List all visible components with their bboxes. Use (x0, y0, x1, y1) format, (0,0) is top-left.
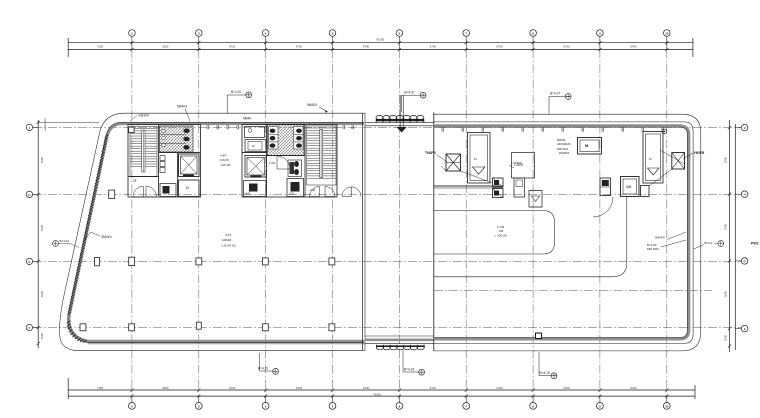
core2 lower room center (287, 179, 304, 197)
right dimension ticks (728, 126, 731, 347)
svg-text:▽16.05: ▽16.05 (219, 158, 229, 162)
svg-text:5M4K: 5M4K (243, 117, 252, 121)
left dimension ticks (37, 121, 40, 345)
svg-text:5M4K4: 5M4K4 (177, 105, 187, 109)
right edge leader B405 (655, 232, 686, 240)
svg-text:4: 4 (265, 405, 267, 409)
label waterproofing arrow top (307, 103, 328, 113)
svg-text:8: 8 (532, 32, 534, 36)
svg-text:MM·5M4: MM·5M4 (647, 247, 659, 251)
label EMFK top corner (130, 114, 150, 122)
left block bottom inner line (88, 343, 365, 345)
svg-text:M: M (649, 157, 652, 161)
horizontal grid axis lines (33, 127, 741, 327)
svg-text:←1M: ←1M (308, 188, 316, 192)
bottom dimension numbers (97, 386, 637, 390)
svg-text:1M1: 1M1 (289, 192, 295, 196)
right dimension numbers (724, 156, 728, 341)
svg-text:B=4.42: B=4.42 (60, 239, 70, 243)
svg-text:EM1FK: EM1FK (139, 114, 151, 118)
right grid bubbles column (735, 124, 748, 332)
svg-text:6700: 6700 (40, 224, 44, 231)
svg-text:6: 6 (399, 32, 401, 36)
small shaft D3 (641, 186, 650, 197)
svg-text:B=4.19: B=4.19 (258, 366, 268, 370)
ramp R1 (529, 191, 542, 208)
svg-text:◇16.05 (A): ◇16.05 (A) (221, 244, 236, 248)
lobby door arc core2 (269, 156, 290, 169)
leader B410 top left (227, 90, 251, 113)
duct shafts core1 (160, 156, 165, 173)
svg-text:M: M (585, 143, 589, 148)
svg-text:TM3FB: TM3FB (425, 151, 436, 155)
svg-text:◇ 100 (A): ◇ 100 (A) (494, 234, 507, 238)
svg-text:5: 5 (332, 32, 334, 36)
label 5M4K core2 top (243, 117, 252, 121)
bottom dimension end extension lines (68, 378, 695, 399)
svg-text:L.M/100: L.M/100 (511, 161, 522, 165)
svg-text:5M4K4: 5M4K4 (102, 235, 112, 239)
svg-text:1500: 1500 (724, 334, 728, 341)
bottom leader B419 right (539, 352, 557, 379)
svg-text:M: M (252, 144, 255, 148)
shaft tower V2 (643, 132, 663, 184)
equipment pad M1 (512, 153, 535, 179)
core2 lower room left (244, 181, 267, 197)
svg-text:7150: 7150 (97, 386, 104, 390)
top dimension line upper (68, 42, 693, 44)
top grid bubbles row (129, 30, 671, 50)
left block wall band (69, 124, 364, 342)
svg-text:1M/2M: 1M/2M (222, 238, 232, 242)
svg-text:6700: 6700 (40, 156, 44, 163)
svg-text:1M·2M: 1M·2M (221, 163, 231, 167)
svg-text:G: G (28, 260, 30, 264)
svg-text:6700: 6700 (296, 386, 303, 390)
duct shafts D1 (493, 178, 504, 198)
svg-text:1500: 1500 (40, 332, 44, 339)
door swings corridor right of core2 (342, 187, 361, 197)
leader label LM150 (509, 161, 522, 168)
svg-text:6700: 6700 (724, 156, 728, 163)
svg-text:B=4.19: B=4.19 (540, 371, 550, 375)
label TM3FB right (683, 151, 705, 159)
svg-text:6: 6 (399, 405, 401, 409)
door swings core1 (133, 179, 157, 197)
svg-text:8: 8 (532, 405, 534, 409)
svg-text:76200: 76200 (373, 392, 381, 396)
equipment text block right (557, 138, 571, 155)
svg-text:4: 4 (265, 32, 267, 36)
bottom leader B419 left (258, 353, 279, 374)
vertical grid axis lines (132, 50, 667, 397)
left block right end wall (363, 113, 366, 350)
right block inner parapet contour (434, 122, 693, 344)
svg-text:6700: 6700 (563, 386, 570, 390)
wall square marker bottom (536, 333, 542, 339)
right dimension extension line (734, 124, 736, 350)
svg-text:2: 2 (131, 405, 133, 409)
leader B4 top right block (549, 92, 571, 114)
leader lines skylight SK2 (649, 150, 685, 186)
machine room core2 (245, 127, 267, 152)
right block outer parapet contour (434, 114, 701, 351)
svg-text:6700: 6700 (363, 45, 370, 49)
door swing right block (593, 197, 613, 217)
svg-text:G: G (744, 259, 746, 263)
leader B442 left (53, 239, 79, 248)
top overall dimension 76200 (376, 38, 385, 42)
left block slanted edge hatching (67, 135, 109, 343)
roof drain circle top right (662, 129, 667, 134)
shaft tower V1 (468, 133, 491, 184)
right edge leader B42 outside (694, 241, 724, 249)
rain pipe top (397, 95, 407, 133)
svg-text:H: H (28, 193, 30, 197)
svg-text:YM3FB: YM3FB (694, 151, 706, 155)
svg-text:6600: 6600 (724, 290, 728, 297)
svg-text:B=4.37: B=4.37 (405, 90, 415, 94)
PW drawing note right edge (751, 242, 759, 246)
fixture cluster core2 (288, 160, 302, 177)
svg-text:H: H (744, 193, 746, 197)
svg-text:10: 10 (665, 405, 669, 409)
core lower wall right block (434, 186, 503, 188)
stair S1 (130, 127, 157, 177)
bottom dimension line upper (68, 389, 695, 391)
rooftop louver bottom (376, 345, 424, 350)
svg-text:2F: 2F (133, 179, 137, 183)
roof level change line L-path (434, 196, 627, 277)
left block wall band dark edge (68, 122, 364, 342)
left dimension numbers (40, 156, 44, 339)
elevator E2 (245, 156, 267, 178)
svg-text:PW1: PW1 (751, 242, 759, 246)
svg-text:10: 10 (665, 32, 669, 36)
floor label 4F left upper (219, 153, 231, 168)
core1 walls (128, 125, 201, 198)
svg-text:9: 9 (599, 405, 601, 409)
structural columns (80, 127, 335, 331)
left grid bubbles column (26, 124, 38, 330)
svg-text:5M4K5: 5M4K5 (307, 103, 317, 107)
core2 walls (242, 125, 337, 198)
left block outer parapet contour (60, 113, 365, 350)
svg-text:7: 7 (465, 405, 467, 409)
bottom grid bubbles row (129, 396, 671, 409)
elevator E1 (179, 154, 200, 177)
toilet room T1 with fixtures (160, 126, 194, 152)
right block wall band dark edge (434, 127, 688, 337)
rooftop louver top (376, 115, 424, 122)
svg-text:J: J (29, 126, 31, 130)
svg-text:6700: 6700 (563, 45, 570, 49)
svg-text:6700: 6700 (296, 45, 303, 49)
svg-text:M: M (186, 186, 189, 190)
svg-text:6700: 6700 (497, 45, 504, 49)
svg-text:7: 7 (465, 32, 467, 36)
svg-text:9: 9 (599, 32, 601, 36)
svg-text:1M: 1M (499, 229, 504, 233)
svg-text:6700: 6700 (229, 386, 236, 390)
level label right block (494, 225, 507, 238)
stair S2 (307, 126, 337, 185)
svg-text:6700: 6700 (630, 45, 637, 49)
svg-text:F: F (29, 326, 31, 330)
svg-text:4十F: 4十F (220, 153, 227, 158)
svg-text:2: 2 (131, 32, 133, 36)
top dimension line lower (68, 49, 693, 51)
bottom leader B419 middle (403, 350, 425, 375)
svg-text:F: F (744, 327, 746, 331)
right dimension line (728, 120, 730, 352)
door swings core2 bottom (308, 187, 335, 308)
duct shaft D2 (600, 178, 611, 196)
svg-text:MM: MM (626, 185, 632, 189)
svg-text:J: J (744, 126, 746, 130)
svg-text:6700: 6700 (724, 223, 728, 230)
svg-text:1.M2: 1.M2 (269, 161, 276, 165)
bottom overall dimension 76200 (373, 392, 381, 396)
svg-text:PM4M1: PM4M1 (559, 151, 570, 155)
svg-text:B=4.19: B=4.19 (404, 367, 414, 371)
svg-text:6700: 6700 (363, 386, 370, 390)
svg-text:1M2: 1M2 (245, 192, 251, 196)
svg-text:B=4.37: B=4.37 (550, 92, 560, 96)
svg-text:7150: 7150 (97, 45, 104, 49)
svg-text:76200: 76200 (376, 38, 385, 42)
skylight SK1 (446, 154, 461, 171)
bottom dimension ticks (130, 389, 668, 398)
equipment pad M2 (514, 178, 525, 197)
curtain wall mullion ticks (442, 128, 664, 132)
svg-text:6700: 6700 (430, 45, 437, 49)
svg-text:6350: 6350 (162, 386, 169, 390)
top dimension numbers (97, 45, 637, 49)
svg-text:5M4K4: 5M4K4 (655, 236, 665, 240)
skylight SK2 (672, 153, 685, 170)
svg-text:6700: 6700 (630, 386, 637, 390)
svg-text:B=4.10: B=4.10 (231, 90, 241, 94)
svg-text:5: 5 (332, 405, 334, 409)
svg-text:6350: 6350 (162, 45, 169, 49)
svg-text:3: 3 (198, 405, 200, 409)
machine room MR1 (578, 138, 602, 155)
core1 lower rooms (160, 180, 199, 197)
left dimension line (37, 120, 39, 348)
bottom dimension line lower (68, 395, 695, 397)
right block left edge wall (433, 113, 435, 351)
floor label 4F left lower (221, 232, 236, 248)
toilet room T2 with stalls (268, 125, 305, 156)
svg-text:6700: 6700 (497, 386, 504, 390)
leader rainpipe top middle (402, 90, 427, 112)
top dimension end extension lines (68, 38, 693, 57)
equipment room ER1 (621, 177, 640, 197)
middle strip top connecting lines (365, 122, 434, 125)
label TM3FB left (425, 151, 447, 162)
middle strip bottom connecting lines (365, 336, 434, 344)
roof opening tongue outline (434, 211, 555, 255)
label slant waterproofing (84, 232, 112, 241)
label 5M4K core1 (177, 105, 190, 122)
right block wall band (434, 126, 689, 339)
svg-text:B=4.2: B=4.2 (705, 241, 713, 245)
top dimension ticks (130, 41, 668, 51)
svg-text:6700: 6700 (229, 45, 236, 49)
svg-text:44FM4M4: 44FM4M4 (557, 142, 571, 146)
left grid J extension line (38, 118, 99, 131)
svg-text:M: M (474, 157, 477, 161)
svg-text:4十F: 4十F (225, 232, 232, 237)
right edge leader B442 (647, 240, 686, 251)
left block wall ticks (207, 125, 354, 129)
svg-text:6600: 6600 (40, 290, 44, 297)
svg-text:3: 3 (198, 32, 200, 36)
leader lines skylight SK1 (441, 166, 493, 183)
svg-text:6700: 6700 (430, 386, 437, 390)
